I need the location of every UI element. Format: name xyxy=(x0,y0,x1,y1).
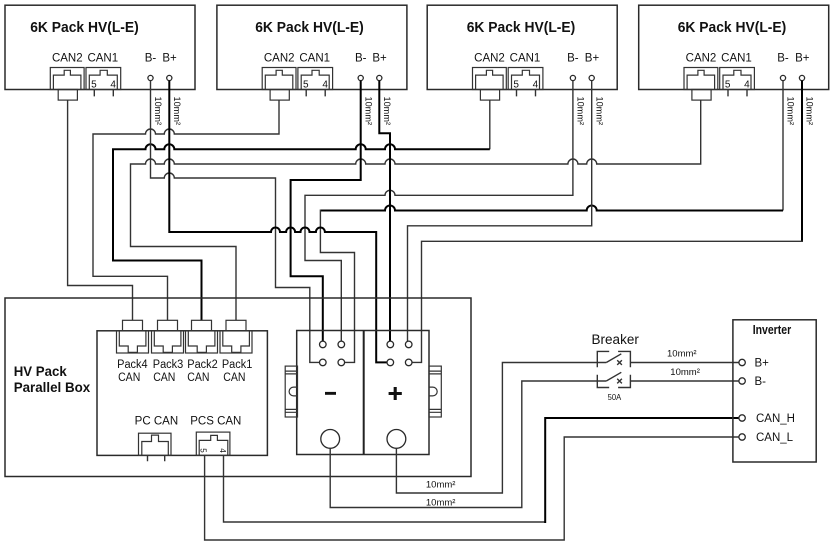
svg-text:50A: 50A xyxy=(608,392,622,402)
svg-text:B+: B+ xyxy=(585,52,600,64)
connector CAN1 of pack P3 with pins 5 and 4 xyxy=(508,68,543,97)
breaker pole 2 (B- line) xyxy=(597,372,630,387)
breaker pole 1 (B+ line) xyxy=(597,351,630,367)
battery pack P2 box "6K Pack HV(L-E)" xyxy=(217,5,407,89)
svg-text:B+: B+ xyxy=(372,52,387,64)
terminal B- of pack P2 xyxy=(358,75,363,80)
svg-text:10mm²: 10mm² xyxy=(670,367,700,378)
svg-text:B-: B- xyxy=(777,52,789,64)
busbar assembly box xyxy=(297,331,429,455)
svg-text:B+: B+ xyxy=(162,52,177,64)
svg-text:10mm²: 10mm² xyxy=(171,97,182,126)
inverter terminal CAN_H xyxy=(739,415,745,421)
busbar plus symbol xyxy=(389,387,402,400)
jack Pack2 CAN on panel xyxy=(186,320,218,353)
label Pack2 CAN xyxy=(187,359,218,384)
busbar terminal plus upper-right xyxy=(405,341,412,348)
svg-text:CAN_H: CAN_H xyxy=(756,413,795,425)
svg-text:5: 5 xyxy=(725,79,731,90)
connector PCS CAN on panel with pins 5 and 4 xyxy=(196,432,230,455)
svg-text:Breaker: Breaker xyxy=(592,332,640,347)
svg-text:CAN2: CAN2 xyxy=(474,52,505,64)
svg-text:CAN2: CAN2 xyxy=(52,52,83,64)
svg-text:CAN1: CAN1 xyxy=(299,52,330,64)
svg-text:10mm²: 10mm² xyxy=(152,97,163,126)
svg-text:Pack3: Pack3 xyxy=(153,359,184,371)
svg-text:B+: B+ xyxy=(755,358,770,370)
svg-text:Pack4: Pack4 xyxy=(117,359,148,371)
terminal B+ of pack P1 xyxy=(167,75,172,80)
terminal B+ of pack P3 xyxy=(589,75,594,80)
battery pack P4 box "6K Pack HV(L-E)" xyxy=(639,5,829,89)
busbar terminal plus lower-right xyxy=(405,359,412,366)
busbar left mounting bracket xyxy=(285,366,297,417)
wire B+ pack P1 to plus busbar (lower-left terminal) xyxy=(169,81,387,363)
busbar terminal plus upper-left xyxy=(387,341,394,348)
wire B- pack P1 to minus busbar (lower-left terminal) xyxy=(151,81,320,363)
svg-text:10mm²: 10mm² xyxy=(804,97,815,126)
label Pack4 CAN xyxy=(117,359,148,384)
wire breaker pole2 to inverter B- xyxy=(630,380,739,382)
connector CAN1 of pack P4 with pins 5 and 4 xyxy=(720,68,755,97)
connector CAN2 of pack P3 xyxy=(473,68,507,101)
svg-text:B-: B- xyxy=(567,52,579,64)
connector PC CAN on panel xyxy=(139,433,172,461)
inverter terminal B- xyxy=(739,378,745,384)
svg-text:CAN1: CAN1 xyxy=(510,52,541,64)
svg-text:4: 4 xyxy=(744,79,750,90)
connector CAN2 of pack P4 xyxy=(684,68,718,101)
svg-text:6K Pack HV(L-E): 6K Pack HV(L-E) xyxy=(30,20,139,36)
busbar terminal plus lower-left xyxy=(387,359,394,366)
busbar terminal minus upper-right xyxy=(338,341,345,348)
svg-text:4: 4 xyxy=(218,448,227,453)
CAN distribution panel inside parallel box xyxy=(97,331,267,456)
svg-text:10mm²: 10mm² xyxy=(593,97,604,126)
inverter box xyxy=(733,320,816,462)
svg-text:4: 4 xyxy=(533,79,539,90)
svg-text:4: 4 xyxy=(110,79,116,90)
svg-text:Inverter: Inverter xyxy=(753,322,792,337)
svg-text:CAN_L: CAN_L xyxy=(756,432,794,444)
wire B+ pack P2 to plus busbar (upper-left terminal) xyxy=(379,81,390,342)
svg-text:CAN: CAN xyxy=(223,372,245,384)
label Pack1 CAN xyxy=(222,359,253,384)
connector CAN2 of pack P2 xyxy=(262,68,296,101)
terminal B- of pack P1 xyxy=(148,75,153,80)
wire B+ pack P3 to plus busbar (upper-right terminal) xyxy=(408,81,592,342)
terminal B- of pack P4 xyxy=(780,75,785,80)
connector CAN1 of pack P2 with pins 5 and 4 xyxy=(298,68,333,97)
jack Pack3 CAN on panel xyxy=(152,320,184,353)
svg-text:10mm²: 10mm² xyxy=(785,97,796,126)
busbar right mounting bracket xyxy=(429,366,441,417)
label HV Pack Parallel Box xyxy=(14,363,91,395)
svg-text:PC CAN: PC CAN xyxy=(135,416,178,428)
svg-text:CAN: CAN xyxy=(153,372,175,384)
terminal B+ of pack P2 xyxy=(377,75,382,80)
wire CAN: pack P2 CAN2 to jack Pack3 CAN xyxy=(93,100,279,320)
svg-text:10mm²: 10mm² xyxy=(426,479,456,490)
wire B- pack P3 to minus busbar (upper-right terminal) xyxy=(305,81,573,342)
svg-text:Pack2: Pack2 xyxy=(187,359,218,371)
jack Pack1 CAN on panel xyxy=(220,320,252,353)
busbar terminal minus lower-left xyxy=(320,359,327,366)
connector CAN2 of pack P1 xyxy=(50,68,84,101)
wire breaker pole1 to inverter B+ xyxy=(630,362,739,364)
busbar divider between minus and plus sections xyxy=(363,331,365,455)
wire B- pack P4 to minus busbar (lower-right terminal) xyxy=(320,81,783,363)
svg-text:10mm²: 10mm² xyxy=(575,97,586,126)
svg-text:CAN: CAN xyxy=(118,372,140,384)
svg-text:6K Pack HV(L-E): 6K Pack HV(L-E) xyxy=(678,20,787,36)
connector CAN1 of pack P1 with pins 5 and 4 xyxy=(86,68,121,97)
wire CAN: pack P3 CAN2 to jack Pack2 CAN xyxy=(113,100,490,320)
svg-text:CAN1: CAN1 xyxy=(87,52,118,64)
jack Pack4 CAN on panel xyxy=(117,320,149,353)
svg-text:HV Pack: HV Pack xyxy=(14,363,67,379)
svg-text:6K Pack HV(L-E): 6K Pack HV(L-E) xyxy=(255,20,364,36)
wire CAN: pack P1 CAN2 to jack Pack4 CAN xyxy=(68,100,133,320)
label Pack3 CAN xyxy=(153,359,184,384)
busbar terminal minus upper-left xyxy=(320,341,327,348)
svg-text:4: 4 xyxy=(322,79,328,90)
battery pack P3 box "6K Pack HV(L-E)" xyxy=(427,5,617,89)
wire B+ pack P4 to plus busbar (lower-right terminal) xyxy=(412,81,803,363)
wire PCS CAN pin5 to inverter CAN_L xyxy=(205,437,739,540)
svg-text:CAN1: CAN1 xyxy=(721,52,752,64)
HV Pack Parallel Box outer enclosure xyxy=(5,298,471,477)
wire plus busbar to breaker pole 1 xyxy=(396,363,606,494)
svg-text:5: 5 xyxy=(199,448,208,453)
busbar terminal minus lower-right xyxy=(338,359,345,366)
busbar minus output stud xyxy=(321,430,340,449)
svg-text:B-: B- xyxy=(755,376,767,388)
inverter terminal CAN_L xyxy=(739,434,745,440)
svg-text:6K Pack HV(L-E): 6K Pack HV(L-E) xyxy=(467,20,576,36)
terminal B- of pack P3 xyxy=(570,75,575,80)
battery pack P1 box "6K Pack HV(L-E)" xyxy=(5,5,195,89)
svg-text:B+: B+ xyxy=(795,52,810,64)
wire CAN: pack P4 CAN2 to jack Pack1 CAN xyxy=(131,100,701,320)
svg-text:10mm²: 10mm² xyxy=(381,97,392,126)
svg-text:CAN2: CAN2 xyxy=(686,52,717,64)
svg-text:5: 5 xyxy=(513,79,519,90)
inverter terminal B+ xyxy=(739,359,745,365)
svg-text:B-: B- xyxy=(355,52,367,64)
wire B- pack P2 to minus busbar (upper-left terminal) xyxy=(291,81,361,342)
terminal B+ of pack P4 xyxy=(799,75,804,80)
svg-text:B-: B- xyxy=(145,52,157,64)
svg-text:CAN2: CAN2 xyxy=(264,52,295,64)
busbar minus symbol xyxy=(325,392,336,395)
svg-text:Parallel Box: Parallel Box xyxy=(14,379,91,395)
svg-text:CAN: CAN xyxy=(187,372,209,384)
svg-text:10mm²: 10mm² xyxy=(426,498,456,509)
svg-text:10mm²: 10mm² xyxy=(362,97,373,126)
svg-text:5: 5 xyxy=(303,79,309,90)
busbar plus output stud xyxy=(387,430,406,449)
svg-text:Pack1: Pack1 xyxy=(222,359,253,371)
svg-text:5: 5 xyxy=(91,79,97,90)
wire minus busbar to breaker pole 2 xyxy=(330,381,606,508)
wire PCS CAN pin4 to inverter CAN_H xyxy=(224,418,739,522)
svg-text:PCS CAN: PCS CAN xyxy=(190,416,241,428)
svg-text:10mm²: 10mm² xyxy=(667,349,697,360)
